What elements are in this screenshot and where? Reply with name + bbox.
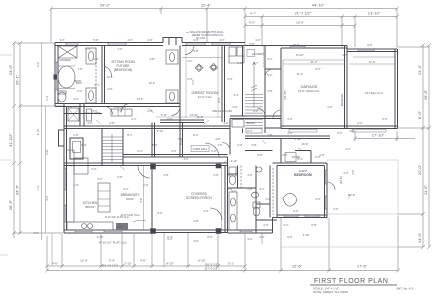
svg-text:7'-4": 7'-4" — [36, 185, 40, 190]
svg-text:22'-4": 22'-4" — [201, 3, 212, 8]
svg-text:5'-4": 5'-4" — [297, 157, 302, 161]
svg-text:5'-6": 5'-6" — [382, 117, 387, 121]
svg-text:8'-2": 8'-2" — [193, 133, 198, 137]
svg-text:4'-2": 4'-2" — [219, 38, 224, 42]
top extension verticals — [51, 9, 397, 48]
svg-text:17'-6": 17'-6" — [357, 264, 368, 269]
svg-text:6'-0": 6'-0" — [315, 197, 320, 201]
svg-text:2'-8": 2'-8" — [193, 219, 198, 223]
svg-text:3'-8": 3'-8" — [147, 109, 152, 113]
svg-text:2'-0": 2'-0" — [143, 183, 148, 187]
kitchen bottom — [64, 230, 152, 233]
svg-text:5'-0": 5'-0" — [211, 149, 216, 153]
stair hall label box — [191, 146, 209, 152]
svg-text:6'-2": 6'-2" — [36, 61, 40, 66]
svg-text:6'-0": 6'-0" — [167, 117, 172, 121]
bedroom furniture curve — [283, 193, 297, 206]
svg-text:5'-1": 5'-1" — [228, 262, 234, 266]
svg-text:LAUNDRY: LAUNDRY — [252, 52, 265, 56]
svg-text:4'-0": 4'-0" — [249, 21, 255, 25]
svg-text:6'-0": 6'-0" — [253, 109, 258, 113]
svg-text:6'-0": 6'-0" — [193, 38, 198, 42]
svg-text:3'-8": 3'-8" — [149, 57, 154, 61]
svg-text:2'-8": 2'-8" — [218, 144, 223, 147]
svg-text:9'-0": 9'-0" — [315, 67, 320, 71]
svg-text:FIRST FLOOR PLAN: FIRST FLOOR PLAN — [314, 278, 388, 285]
pantry boxes — [229, 47, 236, 56]
garage divider wall — [345, 46, 348, 129]
svg-text:14'-6": 14'-6" — [137, 97, 144, 101]
svg-text:6'-8": 6'-8" — [45, 149, 49, 154]
great room bottom — [160, 120, 204, 123]
svg-text:2'-6": 2'-6" — [107, 87, 112, 91]
hall mid walls — [64, 126, 230, 129]
center stair treads — [102, 137, 123, 163]
svg-text:21'-4": 21'-4" — [417, 64, 422, 75]
svg-text:26'-8": 26'-8" — [423, 89, 428, 100]
main stair treads — [245, 95, 263, 129]
svg-text:2'-4": 2'-4" — [45, 95, 49, 100]
svg-text:(21'-8"): (21'-8") — [283, 90, 287, 99]
svg-text:2'-2": 2'-2" — [77, 89, 82, 93]
svg-text:2'-8": 2'-8" — [237, 61, 242, 65]
svg-text:2'-0": 2'-0" — [73, 133, 78, 137]
svg-text:29'-2": 29'-2" — [100, 3, 111, 8]
svg-text:2'-10": 2'-10" — [231, 159, 238, 163]
foyer closet — [285, 153, 296, 162]
svg-text:16'-0": 16'-0" — [296, 21, 304, 25]
svg-text:3'-1": 3'-1" — [259, 187, 264, 191]
svg-text:3'-1": 3'-1" — [94, 83, 99, 87]
svg-text:2'-8": 2'-8" — [109, 121, 114, 125]
svg-text:3'-0": 3'-0" — [333, 207, 338, 211]
svg-text:6'-2": 6'-2" — [259, 235, 264, 239]
porch steps arc — [210, 208, 222, 220]
porch columns — [151, 229, 156, 234]
svg-text:16'-0": 16'-0" — [293, 43, 300, 47]
svg-text:NOOK: NOOK — [126, 197, 134, 201]
svg-text:3'-0": 3'-0" — [237, 143, 242, 147]
svg-text:3'-8": 3'-8" — [251, 143, 256, 147]
fireplace — [59, 130, 65, 146]
svg-text:BEDROOM: BEDROOM — [294, 173, 312, 177]
svg-text:4'-1": 4'-1" — [265, 197, 270, 201]
mud area — [230, 116, 281, 119]
svg-text:4'-6": 4'-6" — [52, 262, 58, 266]
svg-text:12'-6": 12'-6" — [292, 264, 303, 269]
svg-text:5'-2": 5'-2" — [337, 131, 342, 135]
svg-text:16'-0" HIGH CLG.: 16'-0" HIGH CLG. — [298, 89, 320, 93]
bedroom — [273, 163, 328, 166]
svg-text:3'-0": 3'-0" — [184, 158, 189, 161]
master block — [55, 43, 163, 46]
porch — [152, 157, 228, 233]
porch interior vline — [221, 166, 223, 230]
garage door panels — [289, 130, 317, 133]
svg-text:5'-4": 5'-4" — [85, 47, 90, 51]
svg-text:4'-0": 4'-0" — [327, 105, 332, 109]
svg-text:8'-10": 8'-10" — [166, 262, 174, 266]
svg-text:8'-0": 8'-0" — [217, 97, 221, 102]
svg-text:4'-1": 4'-1" — [187, 59, 192, 63]
svg-text:13'-10": 13'-10" — [368, 11, 381, 16]
svg-text:7'-0": 7'-0" — [347, 193, 351, 198]
center stair shaft — [102, 129, 123, 166]
svg-text:(57'-0 1/2"): (57'-0 1/2") — [205, 266, 220, 270]
svg-text:3'-0": 3'-0" — [287, 117, 292, 121]
svg-text:2'-10": 2'-10" — [97, 235, 104, 239]
svg-text:3'-1": 3'-1" — [123, 187, 128, 191]
svg-text:16' HIGH CLG: 16' HIGH CLG — [365, 91, 383, 95]
toilet master — [58, 92, 66, 102]
svg-text:12'-6": 12'-6" — [80, 259, 88, 263]
tub — [58, 66, 75, 88]
svg-text:3'-2": 3'-2" — [91, 167, 96, 171]
svg-text:4'-0": 4'-0" — [247, 173, 252, 177]
svg-text:NOTE: VERIFY ALL DIMS: NOTE: VERIFY ALL DIMS — [313, 290, 348, 294]
great room dim line — [182, 57, 222, 59]
svg-text:12'-0" CLG.: 12'-0" CLG. — [198, 95, 213, 99]
svg-text:5'-0": 5'-0" — [157, 211, 162, 215]
svg-text:4'-7": 4'-7" — [250, 12, 256, 16]
svg-text:3'-6": 3'-6" — [255, 38, 260, 42]
svg-text:(12'-8"): (12'-8") — [339, 176, 343, 184]
bench mud — [232, 120, 244, 128]
svg-text:12'-4": 12'-4" — [107, 75, 114, 79]
svg-text:9'-0": 9'-0" — [367, 43, 372, 47]
svg-text:5'-1": 5'-1" — [191, 79, 195, 84]
svg-text:4'-0": 4'-0" — [203, 209, 208, 213]
svg-text:8'-1": 8'-1" — [127, 133, 132, 137]
svg-text:6'-1": 6'-1" — [131, 117, 136, 121]
svg-text:(16'-10 1/2"): (16'-10 1/2") — [102, 264, 118, 268]
svg-text:6'-2": 6'-2" — [179, 139, 183, 144]
svg-text:3'-6": 3'-6" — [213, 173, 218, 177]
bottom extension verticals — [47, 216, 398, 271]
svg-text:24'-0": 24'-0" — [8, 64, 13, 75]
svg-text:4'-8": 4'-8" — [215, 137, 220, 141]
balloon framing note — [186, 31, 224, 40]
svg-text:7'-0": 7'-0" — [117, 47, 122, 51]
svg-text:BKFST: BKFST — [85, 205, 94, 209]
stairwell walls — [243, 46, 266, 134]
great room right — [222, 46, 225, 123]
scattered small dim texts — [33, 38, 387, 243]
top dim line 1 — [51, 8, 397, 10]
svg-text:4'-0": 4'-0" — [287, 131, 292, 135]
window ticks on exterior walls — [55, 43, 327, 234]
svg-text:5'-4": 5'-4" — [109, 259, 115, 263]
closet columns — [86, 48, 96, 64]
svg-text:LINE OF CLG ABV: LINE OF CLG ABV — [212, 110, 233, 113]
svg-text:3'-0": 3'-0" — [193, 239, 198, 243]
master bottom — [55, 104, 180, 107]
svg-text:2'-2": 2'-2" — [357, 121, 362, 125]
garage window ticks — [290, 46, 374, 52]
svg-text:5'-8": 5'-8" — [93, 38, 98, 42]
svg-text:17'-10": 17'-10" — [372, 133, 385, 138]
svg-text:3'-0": 3'-0" — [349, 129, 354, 133]
svg-text:4'-7": 4'-7" — [342, 53, 347, 57]
svg-text:STAIR HALL: STAIR HALL — [193, 147, 208, 151]
svg-text:ELEV. CLOSET: ELEV. CLOSET — [84, 112, 101, 115]
misc leaders — [96, 108, 303, 170]
svg-text:SHOWER: SHOWER — [59, 59, 70, 62]
svg-text:SHT. No. A-2: SHT. No. A-2 — [396, 287, 414, 291]
svg-text:9'-1": 9'-1" — [212, 67, 217, 71]
svg-text:BATH: BATH — [76, 82, 82, 85]
svg-text:2'-0": 2'-0" — [93, 57, 98, 61]
top dim line 3 — [245, 25, 355, 27]
door arcs — [105, 107, 113, 115]
bath cluster — [229, 119, 231, 155]
svg-text:13'-10": 13'-10" — [190, 113, 198, 117]
svg-text:3'-2": 3'-2" — [59, 38, 64, 42]
svg-text:41'-1/2": 41'-1/2" — [8, 133, 13, 147]
garage interior dim lines — [283, 60, 395, 128]
bottom dim lines — [47, 266, 398, 271]
svg-text:4'-2": 4'-2" — [345, 147, 350, 151]
svg-text:16'-0": 16'-0" — [302, 142, 309, 146]
dimension texts — [52, 3, 385, 271]
svg-text:6'-2": 6'-2" — [97, 177, 102, 181]
svg-text:5'-2": 5'-2" — [267, 73, 272, 77]
left dim verticals — [14, 43, 20, 238]
svg-text:4'-0": 4'-0" — [73, 183, 78, 187]
great room left — [179, 46, 181, 123]
svg-text:22'-0": 22'-0" — [417, 164, 422, 175]
svg-text:3'-10": 3'-10" — [124, 262, 132, 266]
svg-text:21'-2": 21'-2" — [310, 60, 317, 64]
kitchen island — [98, 183, 110, 212]
svg-text:5'-8": 5'-8" — [117, 175, 122, 179]
kitchen counters — [67, 150, 75, 222]
svg-text:4'-8": 4'-8" — [163, 173, 168, 177]
svg-text:6'-0": 6'-0" — [81, 143, 86, 147]
svg-text:4'-10": 4'-10" — [303, 233, 310, 237]
stair hall arc — [205, 143, 219, 157]
svg-text:6'-8": 6'-8" — [193, 49, 198, 53]
svg-text:2'-8": 2'-8" — [319, 153, 324, 157]
svg-text:3'-1": 3'-1" — [267, 57, 272, 61]
svg-text:4'-0": 4'-0" — [127, 38, 132, 42]
svg-text:8'-6": 8'-6" — [207, 235, 212, 239]
svg-text:5'-2": 5'-2" — [231, 189, 236, 193]
bedroom block north partials — [245, 139, 311, 164]
svg-text:7'-2": 7'-2" — [117, 109, 122, 113]
svg-text:4'-0": 4'-0" — [33, 231, 38, 235]
svg-text:6'-1": 6'-1" — [247, 129, 252, 133]
svg-text:5'-8": 5'-8" — [257, 153, 262, 157]
sitting divider — [102, 46, 105, 104]
svg-text:9'-6": 9'-6" — [293, 209, 298, 213]
under-garage dim — [353, 131, 415, 141]
sitting room cabinets — [166, 50, 178, 64]
svg-text:1'-6": 1'-6" — [77, 67, 82, 71]
svg-text:4'-1": 4'-1" — [283, 223, 288, 227]
svg-text:3'-0": 3'-0" — [343, 171, 348, 175]
right dim verticals — [423, 45, 429, 247]
svg-text:BUILT-INS: BUILT-INS — [114, 106, 126, 109]
svg-text:6'-8": 6'-8" — [311, 223, 316, 227]
svg-text:3'-0": 3'-0" — [45, 195, 49, 200]
svg-text:SINK: SINK — [117, 225, 123, 229]
svg-text:SCREEN PORCH: SCREEN PORCH — [186, 196, 212, 200]
great room diamonds (column markers) — [195, 64, 203, 72]
svg-text:2'-8": 2'-8" — [267, 133, 272, 137]
svg-text:21'-2": 21'-2" — [297, 72, 304, 76]
svg-text:8'-10 1/2" FLAT CLG: 8'-10 1/2" FLAT CLG — [99, 241, 127, 245]
svg-text:10'-2": 10'-2" — [149, 81, 156, 85]
svg-text:2'-8": 2'-8" — [247, 187, 252, 191]
svg-text:11'-8" FLAT CLG: 11'-8" FLAT CLG — [120, 213, 139, 217]
svg-text:21'-7 1/2": 21'-7 1/2" — [295, 11, 312, 16]
svg-text:3'-0": 3'-0" — [73, 97, 78, 101]
svg-text:9'-8": 9'-8" — [139, 197, 143, 202]
svg-text:44'-10": 44'-10" — [312, 3, 325, 8]
left interior extension lines — [42, 43, 53, 266]
svg-text:GUEST: GUEST — [299, 170, 308, 173]
breakfast dim vline — [143, 166, 145, 230]
hall south walls — [123, 155, 228, 158]
svg-text:8'-0": 8'-0" — [417, 110, 422, 119]
shower — [58, 46, 77, 58]
svg-text:2'-6": 2'-6" — [282, 153, 287, 157]
svg-text:BEARING: BEARING — [340, 94, 344, 107]
svg-text:5'-6": 5'-6" — [67, 105, 72, 109]
bay window bump — [163, 38, 182, 46]
svg-text:4'-7": 4'-7" — [253, 61, 258, 65]
elevator closet — [68, 108, 79, 121]
svg-text:28'-6": 28'-6" — [8, 199, 13, 210]
svg-text:4'-0": 4'-0" — [147, 38, 152, 42]
svg-text:34'-6": 34'-6" — [15, 184, 20, 195]
svg-text:5'-6": 5'-6" — [152, 143, 157, 147]
laundry top & garage — [245, 45, 281, 47]
svg-text:5'-0": 5'-0" — [287, 235, 292, 239]
svg-text:5'-2": 5'-2" — [167, 237, 172, 241]
svg-text:14'-0": 14'-0" — [417, 232, 422, 243]
svg-text:5'-0": 5'-0" — [249, 42, 254, 46]
left wall upper — [55, 43, 58, 107]
svg-text:17'-6": 17'-6" — [368, 60, 375, 64]
svg-text:BREAKFAST: BREAKFAST — [121, 193, 140, 197]
washer dryer outline — [247, 50, 255, 57]
svg-text:3'-10": 3'-10" — [157, 129, 164, 133]
svg-text:2'-6": 2'-6" — [263, 223, 268, 227]
svg-text:5'-11": 5'-11" — [161, 113, 167, 117]
svg-text:2'-6": 2'-6" — [227, 77, 232, 81]
svg-text:3'-4": 3'-4" — [233, 93, 238, 97]
svg-text:9'-1/2": 9'-1/2" — [296, 53, 304, 57]
svg-text:4'-6": 4'-6" — [140, 259, 146, 263]
svg-text:6'-10": 6'-10" — [295, 137, 302, 141]
top dim line 2 — [245, 16, 397, 18]
svg-text:4'-2": 4'-2" — [87, 121, 92, 125]
svg-text:9'-10": 9'-10" — [36, 129, 40, 136]
svg-text:3'-0": 3'-0" — [232, 105, 237, 109]
svg-text:(BEDROOM): (BEDROOM) — [114, 68, 133, 72]
svg-text:11'-6": 11'-6" — [423, 184, 428, 194]
svg-text:2'-8": 2'-8" — [267, 89, 272, 93]
svg-text:BENCH: BENCH — [247, 122, 256, 125]
svg-text:3'-6": 3'-6" — [351, 169, 355, 174]
svg-text:4'-6": 4'-6" — [171, 149, 176, 153]
hall built-ins — [111, 109, 132, 116]
svg-text:2'-4": 2'-4" — [137, 149, 142, 153]
guest bath fixtures — [229, 176, 236, 185]
pantry room — [265, 68, 281, 70]
svg-text:20'-1": 20'-1" — [15, 74, 20, 85]
svg-text:3'-2": 3'-2" — [247, 237, 252, 241]
svg-text:4'-6": 4'-6" — [223, 121, 228, 125]
